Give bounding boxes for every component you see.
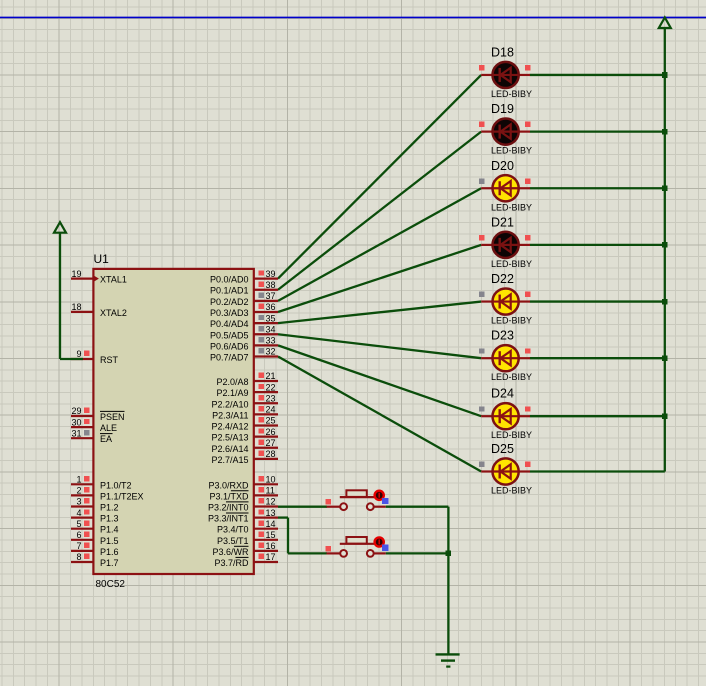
svg-text:33: 33 (266, 336, 276, 346)
LED D25 (LED-BIBY) (479, 442, 532, 496)
junction: bus at D20 row (662, 185, 668, 191)
svg-text:P0.2/AD2: P0.2/AD2 (210, 297, 249, 307)
svg-text:2: 2 (76, 486, 81, 496)
junction: buttons GND node (446, 551, 452, 557)
svg-text:P1.3: P1.3 (100, 514, 119, 524)
wire: U1 P3.2/INT0 to button 1 (278, 506, 327, 508)
LED D18 (LED-BIBY) (479, 45, 532, 98)
U1 pin 6 P1.5 (71, 530, 119, 546)
svg-text:P2.1/A9: P2.1/A9 (216, 388, 248, 398)
svg-text:3: 3 (76, 497, 81, 507)
U1 pin 1 P1.0/T2 (71, 475, 132, 491)
U1 pin 32 P0.7/AD7 (210, 347, 278, 363)
svg-text:LED-BIBY: LED-BIBY (491, 202, 532, 212)
svg-text:26: 26 (266, 427, 276, 437)
svg-text:LED-BIBY: LED-BIBY (491, 430, 532, 440)
U1 pin 12 P3.2/INT0 (208, 497, 278, 513)
svg-text:39: 39 (266, 269, 276, 279)
svg-text:LED-BIBY: LED-BIBY (491, 316, 532, 326)
wire: U1 P0.4 to LED D22 anode (278, 302, 481, 324)
svg-text:P3.1/TXD: P3.1/TXD (209, 491, 249, 501)
svg-text:P1.4: P1.4 (100, 525, 119, 535)
svg-text:P1.2: P1.2 (100, 503, 119, 513)
U1 pin 25 P2.4/A12 (211, 416, 278, 432)
ground symbol (436, 654, 460, 666)
svg-text:13: 13 (266, 508, 276, 518)
push button (top, INT0) (326, 490, 389, 510)
svg-text:1: 1 (76, 475, 81, 485)
svg-text:80C52: 80C52 (96, 579, 126, 590)
svg-text:P1.7: P1.7 (100, 558, 119, 568)
svg-text:P0.3/AD3: P0.3/AD3 (210, 308, 249, 318)
wire: D21 cathode to VCC bus (530, 244, 665, 246)
svg-text:24: 24 (266, 405, 276, 415)
svg-text:P2.4/A12: P2.4/A12 (211, 422, 248, 432)
svg-text:D24: D24 (491, 387, 514, 401)
push button (bottom, INT1) (326, 537, 389, 557)
svg-text:P2.7/A15: P2.7/A15 (211, 455, 248, 465)
LED D23 (LED-BIBY) (479, 329, 532, 383)
U1 pin 7 P1.6 (71, 541, 119, 557)
power symbol VCC (top right) (659, 18, 671, 29)
junction: bus at D19 row (662, 129, 668, 135)
svg-text:EA: EA (100, 434, 112, 444)
U1 pin 28 P2.7/A15 (211, 449, 278, 465)
svg-text:P3.5/T1: P3.5/T1 (217, 536, 249, 546)
junction: bus at D18 row (662, 72, 668, 78)
wire: D18 cathode to VCC bus (530, 74, 665, 76)
LED D22 (LED-BIBY) (479, 272, 532, 326)
wire: button 2 to GND (386, 552, 449, 554)
svg-text:U1: U1 (94, 252, 110, 266)
U1 pin 8 P1.7 (71, 552, 119, 568)
junction: bus at D23 row (662, 355, 668, 361)
U1 pin 5 P1.4 (71, 519, 119, 535)
LED D24 (LED-BIBY) (479, 387, 532, 441)
U1 pin 10 P3.0/RXD (208, 475, 278, 491)
svg-text:12: 12 (266, 497, 276, 507)
svg-text:P0.1/AD1: P0.1/AD1 (210, 286, 249, 296)
wire: D25 cathode to VCC bus (530, 470, 665, 472)
U1 pin 14 P3.4/T0 (217, 519, 278, 535)
U1 pin 24 P2.3/A11 (212, 405, 278, 421)
U1 pin 33 P0.6/AD6 (210, 336, 278, 352)
svg-text:D20: D20 (491, 159, 514, 173)
U1 pin 34 P0.5/AD5 (210, 324, 278, 340)
svg-text:P2.2/A10: P2.2/A10 (211, 399, 248, 409)
wire: D23 cathode to VCC bus (530, 357, 665, 359)
svg-text:19: 19 (71, 269, 81, 279)
wire: U1 P0.0 to LED D18 anode (278, 75, 481, 279)
svg-text:D21: D21 (491, 215, 514, 229)
svg-text:31: 31 (71, 428, 81, 438)
svg-text:RST: RST (100, 355, 119, 365)
svg-text:14: 14 (266, 519, 276, 529)
wire: U1 P0.3 to LED D21 anode (278, 245, 481, 312)
svg-text:P2.5/A13: P2.5/A13 (211, 433, 248, 443)
svg-text:37: 37 (266, 291, 276, 301)
svg-text:22: 22 (266, 382, 276, 392)
svg-text:LED-BIBY: LED-BIBY (491, 486, 532, 496)
svg-text:11: 11 (266, 486, 275, 496)
junction: bus at D22 row (662, 299, 668, 305)
svg-text:P2.3/A11: P2.3/A11 (212, 410, 248, 420)
svg-text:21: 21 (266, 371, 276, 381)
svg-text:P1.6: P1.6 (100, 547, 119, 557)
wire: button 1 to GND net (386, 507, 449, 554)
svg-text:18: 18 (71, 302, 81, 312)
svg-text:5: 5 (76, 519, 81, 529)
svg-text:P2.0/A8: P2.0/A8 (216, 377, 248, 387)
svg-text:P3.3/INT1: P3.3/INT1 (208, 514, 249, 524)
U1 pin 3 P1.2 (71, 497, 119, 513)
U1 pin 2 P1.1/T2EX (71, 486, 144, 502)
microcontroller U1 80C52 (71, 252, 278, 590)
svg-text:9: 9 (76, 349, 81, 359)
U1 pin 21 P2.0/A8 (216, 371, 278, 387)
wire: U1 P0.1 to LED D19 anode (278, 132, 481, 290)
wire: VCC bus vertical (right) (664, 29, 666, 472)
svg-text:6: 6 (76, 530, 81, 540)
U1 pin 35 P0.4/AD4 (210, 313, 278, 329)
svg-text:P1.0/T2: P1.0/T2 (100, 480, 132, 490)
wire: U1 P0.5 to LED D23 anode (278, 334, 481, 358)
svg-text:8: 8 (76, 552, 81, 562)
svg-text:35: 35 (266, 313, 276, 323)
U1 pin 23 P2.2/A10 (211, 393, 278, 409)
svg-text:XTAL2: XTAL2 (100, 308, 127, 318)
wire: D20 cathode to VCC bus (530, 187, 665, 189)
wire: D24 cathode to VCC bus (530, 415, 665, 417)
svg-text:36: 36 (266, 302, 276, 312)
wire: U1 P0.7 to LED D25 anode (278, 357, 481, 472)
svg-text:LED-BIBY: LED-BIBY (491, 372, 532, 382)
svg-text:17: 17 (266, 552, 276, 562)
svg-text:D23: D23 (491, 329, 514, 343)
svg-text:P0.0/AD0: P0.0/AD0 (210, 275, 249, 285)
LED D20 (LED-BIBY) (479, 159, 532, 213)
U1 pin 38 P0.1/AD1 (210, 280, 278, 296)
svg-text:P0.7/AD7: P0.7/AD7 (210, 353, 249, 363)
U1 pin 13 P3.3/INT1 (208, 508, 278, 524)
LED D21 (LED-BIBY) (479, 215, 532, 269)
wire: U1 P0.2 to LED D20 anode (278, 188, 481, 301)
U1 pin 11 P3.1/TXD (209, 486, 278, 502)
U1 pin 9 RST (71, 349, 119, 365)
svg-text:PSEN: PSEN (100, 412, 125, 422)
svg-text:D25: D25 (491, 442, 514, 456)
svg-text:P3.0/RXD: P3.0/RXD (208, 480, 249, 490)
svg-text:16: 16 (266, 541, 276, 551)
U1 pin 30 ALE (71, 417, 117, 433)
svg-text:15: 15 (266, 530, 276, 540)
svg-text:P3.4/T0: P3.4/T0 (217, 525, 249, 535)
wire: VCC to U1 RST (60, 233, 83, 359)
U1 pin 17 P3.7/RD (214, 552, 278, 568)
svg-text:LED-BIBY: LED-BIBY (491, 259, 532, 269)
U1 pin 27 P2.6/A14 (211, 438, 278, 454)
svg-text:7: 7 (76, 541, 81, 551)
U1 pin 31 EA (71, 428, 113, 444)
U1 pin 19 XTAL1 (71, 269, 127, 285)
svg-text:10: 10 (266, 475, 276, 485)
svg-text:P1.5: P1.5 (100, 536, 119, 546)
svg-text:P2.6/A14: P2.6/A14 (211, 444, 248, 454)
svg-text:P3.7/RD: P3.7/RD (214, 558, 249, 568)
svg-text:D22: D22 (491, 272, 514, 286)
svg-text:23: 23 (266, 393, 276, 403)
svg-text:30: 30 (71, 417, 81, 427)
svg-text:LED-BIBY: LED-BIBY (491, 89, 532, 99)
svg-text:32: 32 (266, 347, 276, 357)
wire: U1 P0.6 to LED D24 anode (278, 345, 481, 416)
U1 pin 29 PSEN (71, 406, 125, 422)
U1 pin 39 P0.0/AD0 (210, 269, 278, 285)
U1 pin 15 P3.5/T1 (217, 530, 278, 546)
svg-text:34: 34 (266, 324, 276, 334)
svg-text:P0.5/AD5: P0.5/AD5 (210, 330, 249, 340)
svg-text:P0.4/AD4: P0.4/AD4 (210, 319, 249, 329)
power symbol VCC (left) (54, 222, 66, 233)
wire: D19 cathode to VCC bus (530, 130, 665, 132)
svg-text:38: 38 (266, 280, 276, 290)
svg-text:27: 27 (266, 438, 276, 448)
wire: junction down to ground (447, 553, 449, 654)
svg-text:28: 28 (266, 449, 276, 459)
svg-text:D18: D18 (491, 45, 514, 59)
LED D19 (LED-BIBY) (479, 102, 532, 156)
svg-text:P3.6/WR: P3.6/WR (212, 547, 249, 557)
wire: D22 cathode to VCC bus (530, 300, 665, 302)
svg-text:ALE: ALE (100, 423, 117, 433)
svg-text:D19: D19 (491, 102, 514, 116)
U1 pin 22 P2.1/A9 (216, 382, 278, 398)
U1 pin 36 P0.3/AD3 (210, 302, 278, 318)
junction: bus at D21 row (662, 242, 668, 248)
svg-text:25: 25 (266, 416, 276, 426)
junction: bus at D24 row (662, 413, 668, 419)
svg-text:4: 4 (76, 508, 81, 518)
svg-text:29: 29 (71, 406, 81, 416)
svg-text:P0.6/AD6: P0.6/AD6 (210, 341, 249, 351)
svg-text:P3.2/INT0: P3.2/INT0 (208, 503, 249, 513)
U1 pin 18 XTAL2 (71, 302, 127, 318)
U1 pin 4 P1.3 (71, 508, 119, 524)
U1 pin 26 P2.5/A13 (211, 427, 278, 443)
svg-text:P1.1/T2EX: P1.1/T2EX (100, 491, 144, 501)
U1 pin 16 P3.6/WR (212, 541, 278, 557)
U1 pin 37 P0.2/AD2 (210, 291, 278, 307)
svg-text:XTAL1: XTAL1 (100, 275, 127, 285)
svg-text:LED-BIBY: LED-BIBY (491, 146, 532, 156)
wire: U1 P3.3/INT1 to button 2 (278, 518, 327, 554)
